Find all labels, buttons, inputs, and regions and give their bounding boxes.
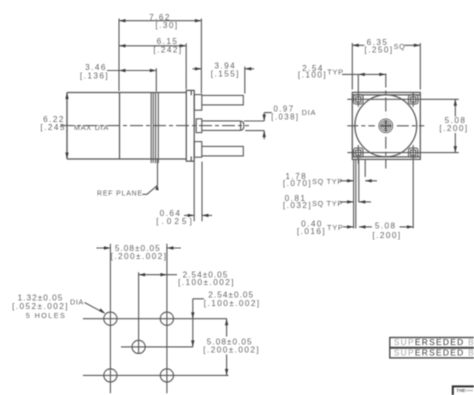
dimension 7.62 [.30]	[119, 19, 201, 94]
insulator blocks	[194, 95, 202, 158]
dimension 3.46 [.136]	[107, 68, 156, 91]
svg-text:DIA: DIA	[70, 297, 84, 306]
REF PLANE leader	[142, 185, 158, 195]
dimension 5.08±0.05 top	[96, 246, 181, 249]
svg-text:[.052±.002]: [.052±.002]	[12, 302, 69, 311]
center pin hub (front)	[379, 119, 393, 133]
dimension 2.54 [.100] TYP	[342, 73, 386, 76]
bottom leg (side)	[202, 146, 244, 156]
label 0.64	[156, 209, 195, 226]
svg-text:[.070]: [.070]	[283, 179, 312, 188]
svg-text:[.016]: [.016]	[297, 227, 326, 236]
svg-text:[.038]: [.038]	[271, 113, 299, 122]
label REF PLANE	[97, 191, 143, 198]
label 6.22 MAX DIA	[40, 115, 109, 132]
svg-text:[.30]: [.30]	[155, 21, 178, 30]
svg-text:[.200]: [.200]	[372, 231, 401, 240]
side view centerline	[61, 125, 249, 127]
svg-text:SUPERSEDED B: SUPERSEDED B	[394, 348, 474, 358]
dimension 6.35 [.250] SQ	[352, 43, 420, 90]
body grooves / ref plane rings	[151, 93, 158, 186]
pad column centerlines	[358, 74, 413, 228]
mounting pad bottom-right	[409, 148, 418, 157]
mounting pad bottom-left	[354, 148, 363, 157]
leader 1.32 DIA	[85, 303, 106, 314]
center pin (side)	[202, 121, 244, 130]
svg-text:THE: THE	[456, 388, 465, 393]
svg-text:[.025]: [.025]	[156, 217, 195, 226]
svg-text:[.032]: [.032]	[283, 201, 312, 210]
hole top-right	[160, 312, 173, 325]
svg-text:TYP: TYP	[327, 199, 343, 208]
svg-text:[.200±.002]: [.200±.002]	[111, 252, 168, 261]
svg-text:TYP: TYP	[327, 177, 343, 186]
svg-text:SUPERSEDED B: SUPERSEDED B	[394, 337, 474, 347]
svg-text:[.245]: [.245]	[40, 123, 69, 132]
svg-text:TYP: TYP	[327, 67, 343, 76]
label 5.08 right	[439, 116, 468, 133]
svg-text:[.100±.002]: [.100±.002]	[204, 299, 261, 308]
svg-text:MAX DIA: MAX DIA	[74, 123, 109, 132]
label 1.78 SQ TYP	[283, 172, 343, 188]
svg-text:SQ: SQ	[312, 199, 324, 208]
svg-text:SQ: SQ	[312, 177, 324, 186]
hole bottom-right	[160, 369, 173, 382]
label 2.54 TYP	[298, 64, 344, 80]
dimension 2.54±0.05 upper	[139, 273, 177, 276]
dimension 5.08 [.200] right	[454, 99, 457, 152]
label 6.15	[153, 37, 182, 54]
SUPERSEDED stamp box 1	[390, 337, 474, 347]
connector body outline	[67, 93, 186, 160]
dimension 3.94 [.155]	[193, 67, 255, 94]
svg-text:[.242]: [.242]	[153, 45, 182, 54]
flange square (front view)	[352, 92, 420, 159]
label 5.08 bottom	[372, 222, 401, 240]
dimension 0.81 [.032] SQ TYP	[340, 200, 371, 203]
label 2.54±0.05 upper	[178, 270, 235, 287]
label 3.94	[211, 62, 240, 79]
svg-text:5 HOLES: 5 HOLES	[26, 311, 67, 320]
svg-text:DIA: DIA	[302, 108, 316, 117]
label 0.97 DIA	[271, 105, 316, 122]
label 5.08±0.05 top	[111, 244, 168, 261]
dimension 5.08 [.200] bottom	[359, 225, 413, 228]
svg-text:[.100±.002]: [.100±.002]	[178, 278, 235, 287]
label 0.40 TYP	[297, 219, 344, 236]
label 2.54±0.05 lower	[204, 291, 261, 309]
front view vertical centerline	[385, 74, 387, 169]
dimension 0.40 [.016] TYP	[343, 225, 354, 228]
svg-text:[.100]: [.100]	[298, 71, 327, 80]
pad row centerline bottom	[347, 152, 459, 154]
title block corner	[453, 386, 474, 395]
hole center	[132, 340, 145, 353]
dimension 6.15 [.242]	[119, 43, 186, 89]
svg-text:[.136]: [.136]	[80, 72, 109, 81]
label 3.46	[80, 63, 109, 80]
label 1.32±0.05 5 HOLES	[12, 294, 84, 320]
SUPERSEDED stamp box 2	[390, 348, 474, 358]
svg-text:[.155]: [.155]	[211, 69, 240, 78]
mounting flange (side)	[186, 90, 194, 161]
svg-text:REF PLANE: REF PLANE	[97, 191, 143, 198]
label 0.81 SQ TYP	[283, 194, 343, 210]
label 7.62	[149, 13, 178, 30]
connector barrel circle	[355, 95, 417, 157]
hole top-left	[104, 312, 117, 325]
svg-text:[.250]: [.250]	[364, 46, 393, 55]
mounting pad top-left	[354, 95, 363, 104]
front view horizontal centerline	[347, 125, 424, 127]
hole pattern row lines	[83, 319, 229, 376]
label 5.08±0.05 right	[203, 338, 260, 355]
legs below flange (front)	[354, 159, 366, 228]
dimension 2.54±0.05 lower (vertical)	[191, 299, 204, 347]
hole pattern column lines	[110, 244, 166, 394]
dimension 6.22 [.245] MAX DIA	[65, 93, 68, 160]
pad row centerline top	[347, 98, 459, 100]
dimension 1.78 [.070] SQ TYP	[340, 179, 377, 182]
hole bottom-left	[104, 369, 117, 382]
top leg (side)	[202, 95, 244, 105]
dimension 5.08±0.05 right (vertical)	[225, 319, 228, 376]
svg-text:5.08: 5.08	[375, 222, 397, 231]
svg-text:SQ: SQ	[394, 42, 406, 51]
dimension 0.97 [.038] DIA	[244, 113, 272, 140]
svg-text:[.200]: [.200]	[439, 124, 468, 133]
svg-text:[.200±.002]: [.200±.002]	[203, 346, 260, 355]
svg-text:TYP: TYP	[327, 223, 343, 232]
mounting pad top-right	[409, 95, 418, 104]
label 6.35 SQ	[364, 38, 405, 55]
dimension 0.64 [.025]	[184, 162, 212, 222]
